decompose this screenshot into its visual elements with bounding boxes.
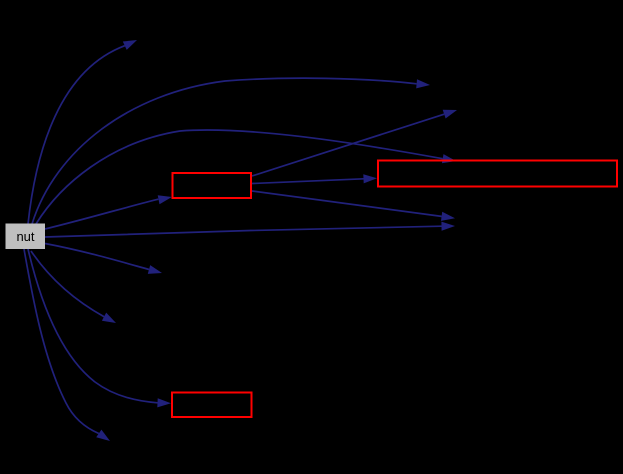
svg-text:nut: nut	[16, 229, 34, 244]
